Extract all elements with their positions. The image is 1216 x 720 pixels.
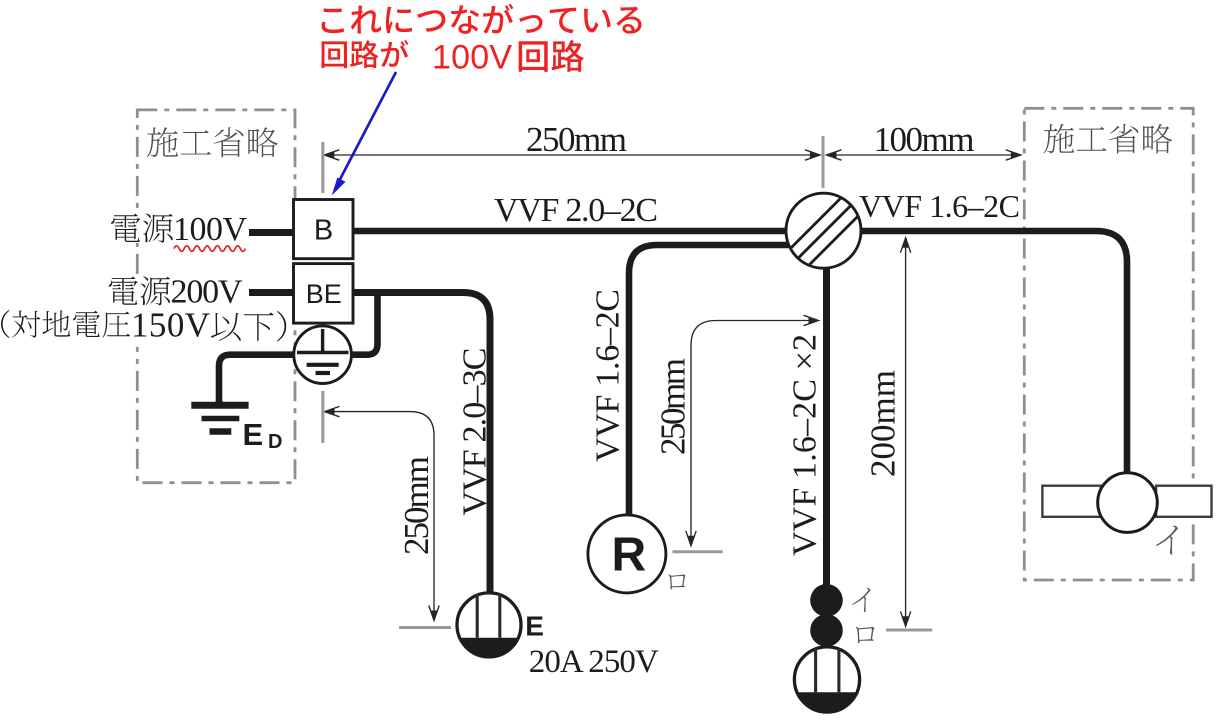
svg-text:VVF 2.0–3C: VVF 2.0–3C [457, 348, 494, 516]
dimension 250mm left vertical [325, 406, 440, 620]
earth terminal circle [294, 326, 352, 384]
dimension 200mm right [900, 238, 910, 627]
right construction-omitted dash-dot box [1024, 108, 1193, 580]
white mask where labels cross the dash-dot edge [130, 211, 145, 243]
label イ at switch [852, 588, 870, 612]
svg-text:VVF 1.6–2C: VVF 1.6–2C [859, 188, 1020, 224]
junction box (hatched circle) [786, 193, 862, 269]
svg-text:D: D [268, 431, 282, 453]
wire earth terminal to ground rod [219, 355, 293, 404]
receptacle E 20A 250V [457, 593, 521, 657]
wire VVF2.0-3C breaker BE to receptacle E [353, 293, 490, 594]
svg-text:R: R [611, 528, 646, 581]
svg-text:B: B [314, 215, 333, 247]
tick beside earth terminal for left 250mm dimension [321, 391, 324, 443]
right box label 施工省略 [1044, 124, 1173, 154]
svg-text:E: E [243, 417, 264, 452]
ground label E_D [243, 417, 283, 453]
svg-text:100V: 100V [173, 211, 247, 248]
wire 電源200V to breaker BE [249, 289, 294, 296]
svg-text:VVF 1.6–2C: VVF 1.6–2C [590, 289, 627, 462]
svg-text:20A 250V: 20A 250V [529, 644, 659, 680]
left box label 施工省略 [147, 127, 278, 157]
svg-text:200mm: 200mm [864, 370, 903, 477]
switch イ (single-pole) [810, 584, 843, 617]
left construction-omitted dash-dot box [137, 110, 295, 483]
label （対地電圧150V以下） [1, 306, 286, 345]
tick left of 250mm dimension [321, 142, 324, 193]
dimension 250mm middle [686, 315, 819, 546]
lamp R [588, 515, 666, 593]
breaker B [294, 200, 354, 259]
svg-text:250mm: 250mm [526, 120, 627, 159]
dimension 100mm top [827, 150, 1021, 160]
label イ at ceiling lamp [1156, 526, 1178, 555]
dimension 250mm top [324, 150, 820, 160]
wire 電源100V to breaker B [249, 229, 294, 236]
annotation text red line2 回路が 100V 回路 [322, 40, 584, 72]
label ロ at lamp R [668, 574, 685, 589]
annotation text red line1 これにつながっている [322, 4, 642, 34]
tick below middle 250mm dimension [672, 550, 722, 553]
tick below 200mm dimension [886, 629, 932, 632]
breaker BE [294, 264, 354, 324]
svg-text:100mm: 100mm [874, 120, 975, 159]
tick at junction for dimensions [822, 136, 825, 188]
label 電源100V [111, 211, 247, 248]
svg-text:E: E [525, 611, 544, 642]
wire earth terminal up to BE output [353, 294, 378, 355]
wire VVF1.6-2C x2 junction down to switches [823, 267, 830, 590]
svg-text:BE: BE [306, 279, 342, 309]
ceiling lamp イ in right box [1042, 473, 1211, 533]
label ロ at switch [856, 627, 875, 644]
svg-text:250mm: 250mm [654, 358, 693, 455]
wire VVF2.0-2C breaker B to junction box then VVF1.6-2C to lamp イ [353, 231, 1127, 474]
switch ロ (single-pole) [810, 614, 843, 647]
svg-text:100V: 100V [432, 39, 512, 77]
label 電源200V [109, 274, 243, 311]
svg-text:150V: 150V [131, 306, 210, 345]
receptacle below switches [794, 647, 859, 712]
red wavy underline under 100V [174, 246, 245, 251]
svg-text:VVF 2.0–2C: VVF 2.0–2C [494, 192, 658, 229]
ground rod symbol [191, 405, 248, 431]
svg-text:VVF 1.6–2C ×2: VVF 1.6–2C ×2 [787, 334, 824, 556]
wire VVF1.6-2C junction to lamp R [629, 245, 790, 515]
blue leader arrow [332, 72, 396, 196]
tick below left 250mm dimension [399, 626, 451, 629]
svg-text:250mm: 250mm [397, 456, 436, 555]
